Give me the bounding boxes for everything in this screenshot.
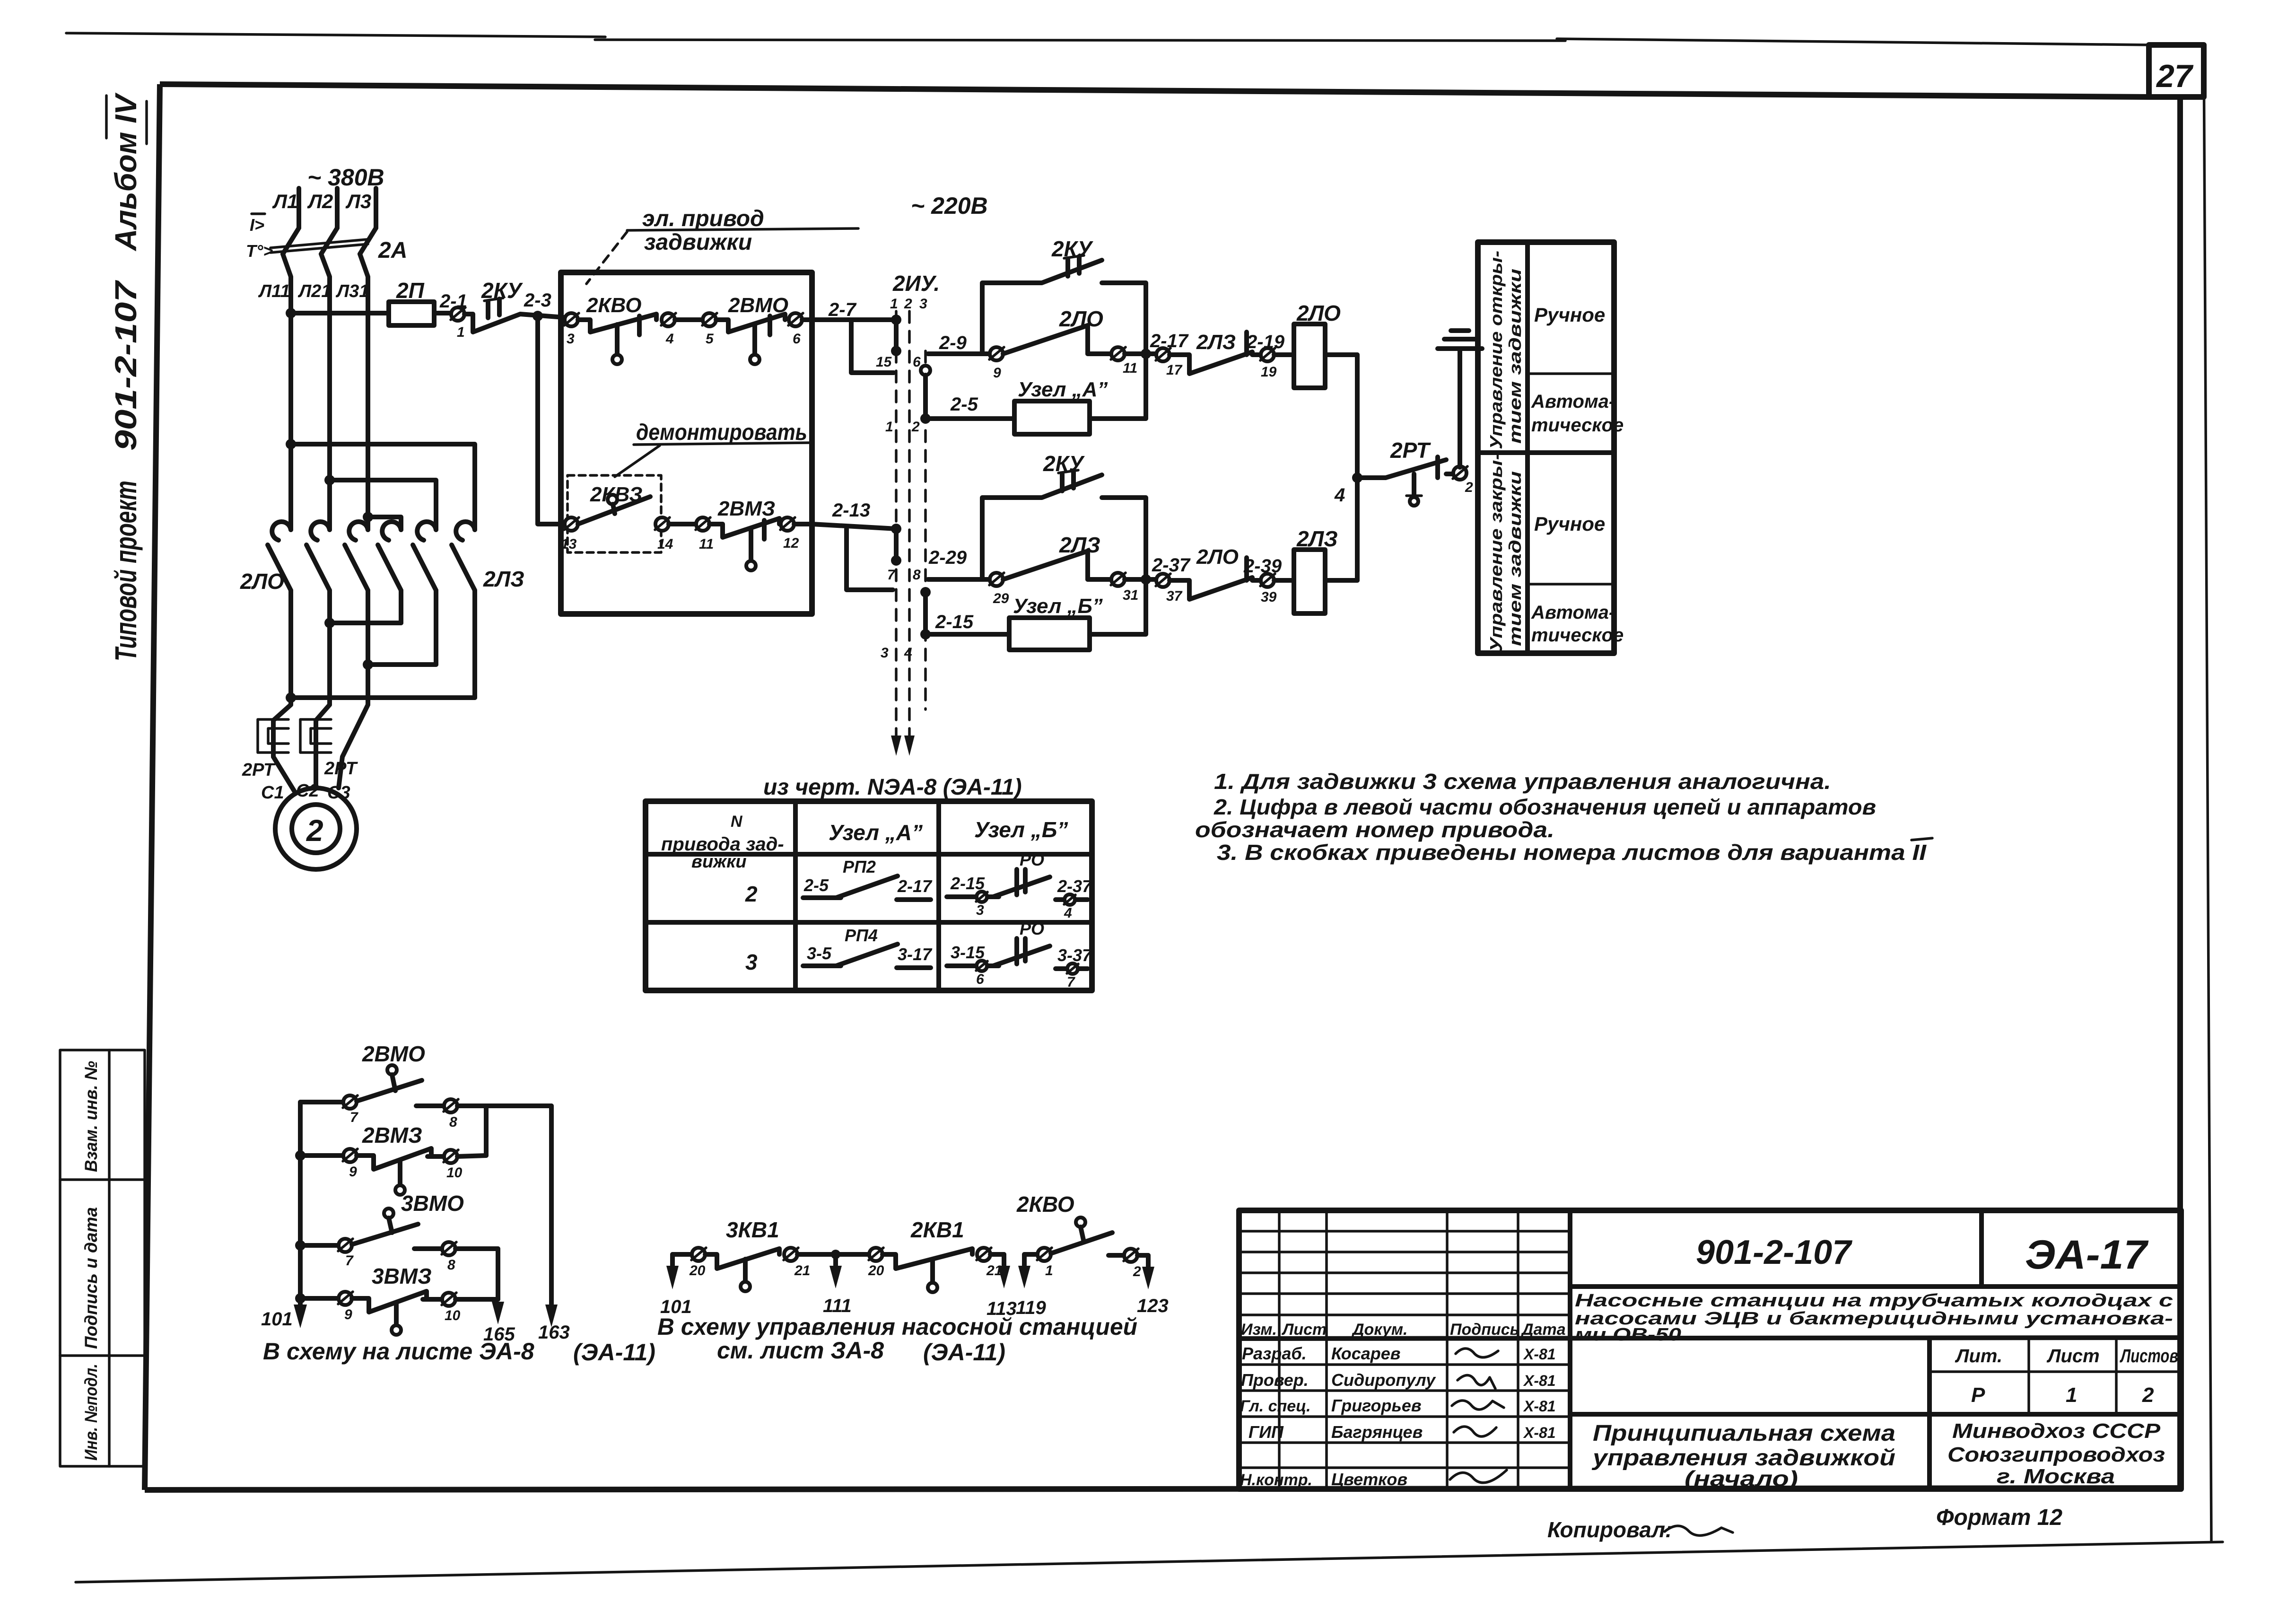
svg-text:Л21: Л21	[297, 281, 331, 301]
net ~220V label	[911, 193, 988, 219]
svg-text:Узел „Б”: Узел „Б”	[974, 817, 1068, 842]
thermal relay 2RT element2	[300, 705, 358, 779]
switch 2KU main	[464, 278, 570, 332]
sheet outer border top	[66, 33, 2151, 45]
svg-text:Л11: Л11	[258, 281, 290, 301]
svg-text:обозначает номер привода.: обозначает номер привода.	[1195, 817, 1554, 842]
svg-text:2-37: 2-37	[1152, 555, 1191, 576]
wire phase L31	[335, 254, 369, 530]
node 2-5 uzelA	[931, 394, 1014, 419]
svg-text:(ЭА-11): (ЭА-11)	[573, 1339, 655, 1366]
svg-text:163: 163	[538, 1322, 570, 1343]
svg-text:3: 3	[745, 950, 758, 974]
svg-text:3-5: 3-5	[807, 944, 832, 963]
svg-text:2-37: 2-37	[1057, 876, 1092, 896]
svg-text:9: 9	[344, 1307, 352, 1322]
svg-text:2ЛО: 2ЛО	[240, 569, 284, 594]
svg-text:Насосные станции на трубчатых: Насосные станции на трубчатых колодцах с	[1575, 1291, 2173, 1311]
svg-text:3: 3	[567, 331, 575, 347]
svg-text:В схему управления насосной: В схему управления насосной станцией	[657, 1314, 1137, 1340]
svg-text:Н.контр.: Н.контр.	[1240, 1471, 1312, 1489]
svg-text:Лист: Лист	[2046, 1346, 2100, 1366]
svg-text:4: 4	[665, 331, 674, 347]
motor M2	[275, 788, 357, 869]
svg-text:11: 11	[699, 536, 714, 552]
contact 2KV1	[868, 1217, 1004, 1292]
contact 3KV1	[689, 1217, 869, 1291]
terminal 2-39	[1243, 556, 1282, 605]
svg-text:3: 3	[976, 902, 984, 918]
terminal 2-17	[1150, 331, 1189, 378]
contact 2VMZ aux	[295, 1123, 486, 1195]
svg-text:3ВМЗ: 3ВМЗ	[372, 1264, 432, 1288]
contact 2LZ aux open	[1003, 533, 1111, 579]
svg-text:2П: 2П	[396, 278, 425, 303]
svg-text:задвижки: задвижки	[644, 230, 752, 255]
svg-text:Григорьев: Григорьев	[1331, 1396, 1422, 1415]
svg-text:Багрянцев: Багрянцев	[1331, 1422, 1423, 1442]
svg-text:7: 7	[350, 1110, 358, 1125]
svg-text:2-9: 2-9	[939, 333, 967, 353]
note format	[1936, 1505, 2062, 1530]
svg-text:3. В скобках приведены номер: 3. В скобках приведены номера листов для…	[1217, 840, 1927, 865]
note kopiroval	[1547, 1517, 1733, 1542]
svg-text:Союзгипроводхоз: Союзгипроводхоз	[1947, 1443, 2165, 1466]
sheet number box	[2149, 45, 2204, 97]
svg-text:12: 12	[783, 535, 799, 551]
switch 2KU open branch	[982, 236, 1146, 354]
svg-text:Автома-: Автома-	[1531, 391, 1615, 412]
margin stamp boxes	[60, 1050, 145, 1466]
node L3	[345, 188, 376, 228]
svg-text:13: 13	[561, 536, 577, 552]
switch 2KU close branch	[982, 451, 1146, 579]
svg-text:15: 15	[876, 354, 892, 370]
svg-text:14: 14	[657, 536, 673, 552]
ground	[1438, 331, 1482, 467]
svg-text:2: 2	[1133, 1264, 1141, 1279]
terminal 2-37	[1152, 555, 1191, 604]
fuse 2P	[389, 278, 450, 325]
svg-text:2. Цифра в левой части обознач: 2. Цифра в левой части обозначения цепей…	[1213, 795, 1876, 819]
node 2-3	[524, 290, 551, 321]
node 2-7	[812, 299, 901, 373]
svg-text:Лит.: Лит.	[1955, 1346, 2002, 1366]
svg-text:см. лист ЗА-8: см. лист ЗА-8	[717, 1337, 884, 1364]
svg-text:20: 20	[868, 1263, 884, 1278]
svg-text:ГИП: ГИП	[1248, 1422, 1284, 1442]
svg-text:2-3: 2-3	[524, 290, 551, 311]
svg-text:Автома-: Автома-	[1531, 602, 1615, 623]
svg-text:7: 7	[1067, 974, 1075, 990]
svg-text:Альбом IV: Альбом IV	[109, 92, 143, 252]
terminal 31	[1111, 573, 1156, 603]
svg-text:Гл. спец.: Гл. спец.	[1240, 1397, 1311, 1415]
svg-text:В схему на листе ЭА-8: В схему на листе ЭА-8	[263, 1338, 534, 1365]
svg-text:Сидиропулу: Сидиропулу	[1331, 1370, 1436, 1390]
svg-text:Подпись и дата: Подпись и дата	[81, 1207, 101, 1349]
caption ladder	[263, 1338, 655, 1366]
svg-text:2КВО: 2КВО	[586, 294, 641, 317]
svg-text:21: 21	[794, 1263, 810, 1278]
svg-text:2РТ: 2РТ	[242, 760, 276, 780]
svg-text:Изм.: Изм.	[1241, 1321, 1277, 1339]
svg-text:901-2-107: 901-2-107	[109, 280, 143, 451]
svg-text:вижки: вижки	[691, 852, 747, 872]
svg-text:6: 6	[976, 972, 984, 987]
contact 2KVO chain	[1016, 1192, 1148, 1279]
svg-text:Подпись: Подпись	[1450, 1321, 1519, 1339]
svg-text:Л1: Л1	[272, 190, 298, 212]
node fuse tap	[286, 308, 389, 318]
svg-text:37: 37	[1166, 588, 1183, 604]
svg-text:123: 123	[1137, 1296, 1169, 1316]
svg-text:3: 3	[919, 296, 927, 312]
contactor 2LZ poles	[378, 522, 524, 591]
svg-text:2РТ: 2РТ	[1390, 438, 1432, 463]
title block texts	[1240, 1232, 2178, 1491]
contact 2LZ nc	[1170, 331, 1261, 374]
svg-text:2-29: 2-29	[928, 547, 967, 568]
contactor jumper phase1 to pole6	[286, 439, 475, 530]
terminal 6	[788, 313, 812, 347]
svg-text:2: 2	[306, 814, 323, 848]
svg-text:4: 4	[1334, 485, 1345, 506]
svg-text:X-81: X-81	[1523, 1372, 1556, 1389]
svg-text:эл. привод: эл. привод	[642, 206, 764, 231]
svg-text:10: 10	[446, 1165, 463, 1181]
terminal 14	[655, 517, 696, 552]
svg-text:2ИУ.: 2ИУ.	[892, 271, 940, 296]
svg-text:Р: Р	[1971, 1384, 1985, 1407]
terminal 11	[696, 517, 714, 552]
svg-text:2: 2	[911, 419, 920, 435]
wire ladder right drop	[486, 1106, 570, 1343]
dashed box to dismantle	[567, 475, 661, 552]
svg-text:~ 380В: ~ 380В	[307, 164, 384, 191]
svg-text:2ВМЗ: 2ВМЗ	[717, 497, 775, 520]
chain arrow 119	[1016, 1254, 1047, 1318]
terminal 13	[561, 517, 579, 552]
svg-text:8: 8	[449, 1114, 457, 1130]
wire recross pole5 to phase3	[363, 659, 436, 670]
svg-text:(начало): (начало)	[1685, 1466, 1798, 1491]
svg-text:27: 27	[2156, 58, 2194, 94]
wire ladder right drop2	[496, 1249, 500, 1299]
svg-text:тическое: тическое	[1531, 625, 1624, 646]
svg-text:г. Москва: г. Москва	[1997, 1465, 2115, 1488]
svg-text:Ручное: Ручное	[1534, 513, 1605, 535]
wire motor leads	[273, 705, 368, 791]
svg-text:Дата: Дата	[1520, 1321, 1566, 1339]
svg-text:Копировал:: Копировал:	[1547, 1517, 1672, 1542]
svg-text:Косарев: Косарев	[1331, 1344, 1401, 1363]
contact 3VMO aux	[295, 1191, 498, 1273]
svg-text:Минводхоз СССР: Минводхоз СССР	[1952, 1419, 2161, 1443]
svg-text:Взам. инв. №: Взам. инв. №	[81, 1061, 101, 1172]
svg-text:4: 4	[904, 645, 912, 661]
svg-text:Л3: Л3	[345, 190, 371, 212]
terminal 29	[989, 573, 1009, 606]
svg-text:2А: 2А	[378, 238, 407, 263]
terminal 3	[564, 313, 579, 347]
thermal relay 2RT element1	[242, 705, 291, 780]
svg-text:Узел „А”: Узел „А”	[829, 820, 923, 845]
wire phase L21	[297, 254, 331, 530]
svg-text:17: 17	[1166, 362, 1183, 378]
svg-text:Л31: Л31	[335, 281, 369, 301]
svg-text:Листов: Листов	[2120, 1346, 2178, 1366]
svg-text:Докум.: Докум.	[1351, 1321, 1407, 1339]
mid reference table	[646, 775, 1092, 990]
svg-text:РП4: РП4	[845, 926, 878, 945]
terminal 5	[702, 313, 717, 347]
mode table	[1478, 242, 1624, 653]
svg-text:X-81: X-81	[1523, 1424, 1556, 1441]
svg-text:Лист: Лист	[1281, 1321, 1327, 1339]
svg-text:2КВО: 2КВО	[1016, 1192, 1074, 1217]
coil 2LZ	[1274, 526, 1357, 613]
mid table row valve2	[745, 850, 1092, 921]
svg-text:2ЛО: 2ЛО	[1196, 545, 1239, 569]
enclosure box drive	[561, 272, 812, 614]
node 2-29	[928, 547, 990, 579]
svg-text:1: 1	[2066, 1384, 2077, 1407]
svg-text:(ЭА-11): (ЭА-11)	[923, 1339, 1005, 1366]
node 2-15 uzelB	[931, 612, 1009, 634]
svg-text:2-5: 2-5	[950, 394, 978, 415]
chain arrow 123	[1137, 1255, 1169, 1316]
svg-text:Узел „Б”: Узел „Б”	[1013, 595, 1103, 618]
svg-text:901-2-107: 901-2-107	[1696, 1234, 1852, 1271]
contactor jumper phase3 to pole4	[363, 512, 401, 530]
svg-text:2-15: 2-15	[935, 612, 974, 632]
svg-text:2: 2	[2142, 1384, 2154, 1407]
svg-text:Управление закры-: Управление закры-	[1486, 453, 1506, 652]
drawing frame	[145, 84, 2181, 1490]
svg-text:Принципиальная схема: Принципиальная схема	[1593, 1421, 1895, 1446]
svg-text:тическое: тическое	[1531, 415, 1624, 436]
terminal strip taps line3	[920, 366, 931, 639]
svg-text:2ВМО: 2ВМО	[362, 1042, 425, 1066]
svg-text:РО: РО	[1020, 850, 1044, 869]
svg-text:Разраб.: Разраб.	[1242, 1344, 1307, 1363]
svg-text:Цветков: Цветков	[1331, 1470, 1407, 1489]
svg-text:тием задвижки: тием задвижки	[1505, 471, 1525, 646]
node 2-9	[928, 333, 990, 354]
svg-text:10: 10	[445, 1308, 461, 1323]
contact 2LO nc	[1170, 545, 1261, 599]
wire recross pole4 to phase2	[324, 618, 401, 628]
terminal 2 control	[1453, 466, 1473, 495]
chain arrow 113	[986, 1254, 1017, 1319]
contact 2VMZ	[709, 497, 779, 570]
svg-text:9: 9	[993, 365, 1001, 381]
label demontirovat	[615, 420, 810, 477]
terminal 9	[989, 347, 1004, 381]
chain arrow 111	[823, 1250, 852, 1316]
svg-text:1: 1	[457, 324, 465, 340]
chain arrow 101	[660, 1254, 692, 1317]
svg-text:8: 8	[913, 567, 921, 583]
svg-text:3: 3	[881, 645, 889, 661]
wire feeder to lower row	[538, 316, 563, 524]
svg-text:демонтировать: демонтировать	[636, 420, 807, 445]
svg-text:Ручное: Ручное	[1534, 304, 1605, 326]
svg-text:РП2: РП2	[843, 857, 876, 876]
terminal 2-19	[1246, 332, 1285, 380]
svg-text:2: 2	[904, 296, 912, 312]
svg-text:~ 220В: ~ 220В	[911, 193, 988, 219]
svg-text:тием задвижки: тием задвижки	[1505, 269, 1525, 444]
svg-text:1. Для задвижки 3 схема управл: 1. Для задвижки 3 схема управления анало…	[1214, 769, 1831, 794]
node 2-13	[812, 500, 901, 590]
terminal C1 C2 C3	[261, 781, 350, 803]
title block signatures	[1450, 1349, 1507, 1483]
net ~380V label	[307, 164, 384, 191]
contact 2LO aux open	[1003, 306, 1111, 354]
svg-text:N: N	[731, 813, 743, 831]
svg-text:2-17: 2-17	[897, 876, 933, 896]
contact 2KVO	[578, 294, 656, 364]
contactor 2LO poles	[240, 522, 368, 594]
wire pole outputs	[291, 590, 475, 705]
svg-text:3КВ1: 3КВ1	[726, 1217, 779, 1242]
svg-text:39: 39	[1261, 589, 1277, 605]
terminal 11 control	[1111, 347, 1156, 376]
svg-text:3-17: 3-17	[898, 945, 933, 964]
node junction uzelA riser	[1141, 349, 1151, 359]
contact 3VMZ aux	[295, 1264, 515, 1345]
node junction uzelB riser	[1141, 574, 1151, 585]
svg-text:2ЛЗ: 2ЛЗ	[1196, 331, 1236, 354]
svg-text:6: 6	[793, 331, 801, 347]
svg-text:Провер.: Провер.	[1241, 1370, 1309, 1390]
svg-text:1: 1	[890, 296, 898, 312]
title block frame	[1239, 1210, 2181, 1489]
svg-text:Л2: Л2	[307, 190, 333, 212]
svg-text:9: 9	[349, 1164, 357, 1180]
svg-text:20: 20	[689, 1263, 706, 1278]
margin note: project designation (rotated)	[106, 92, 147, 661]
node L2	[307, 188, 337, 228]
svg-text:31: 31	[1123, 587, 1138, 603]
coil 2LO	[1274, 301, 1357, 388]
svg-text:2ВМЗ: 2ВМЗ	[362, 1123, 422, 1147]
svg-text:11: 11	[1123, 360, 1137, 376]
terminal 12	[780, 517, 812, 551]
wire coil common bus	[1334, 355, 1386, 580]
svg-text:2-7: 2-7	[828, 299, 857, 320]
svg-text:из черт. NЭА-8 (ЭА-11): из черт. NЭА-8 (ЭА-11)	[763, 775, 1022, 800]
caption chain	[657, 1314, 1137, 1366]
svg-text:3ВМО: 3ВМО	[401, 1191, 464, 1216]
notes text	[1195, 769, 1932, 865]
svg-text:4: 4	[1064, 905, 1072, 921]
svg-text:19: 19	[1261, 364, 1277, 380]
wire phase L11	[258, 254, 291, 530]
svg-text:2: 2	[1465, 480, 1473, 495]
contact 2VMO aux	[300, 1042, 551, 1130]
svg-text:Управление откры-: Управление откры-	[1486, 251, 1506, 449]
terminal strip 2IU	[876, 271, 940, 756]
svg-text:2-5: 2-5	[803, 876, 829, 895]
sheet outer border bottom	[76, 1542, 2223, 1582]
contactor jumper phase2 to pole5	[324, 475, 436, 530]
terminal 4	[661, 313, 703, 347]
svg-text:Формат 12: Формат 12	[1936, 1505, 2062, 1530]
svg-text:Инв. №подл.: Инв. №подл.	[81, 1364, 101, 1461]
ladder left bus	[261, 1102, 307, 1330]
svg-text:РО: РО	[1020, 919, 1044, 938]
svg-text:I>: I>	[250, 215, 264, 235]
block uzel B	[1009, 580, 1146, 650]
sheet outer border right	[2204, 45, 2211, 1541]
svg-text:1: 1	[1045, 1263, 1053, 1278]
svg-text:5: 5	[706, 331, 714, 347]
svg-text:101: 101	[261, 1309, 293, 1330]
terminal 2-1	[439, 291, 467, 340]
svg-text:7: 7	[887, 567, 896, 583]
svg-text:2: 2	[745, 882, 758, 906]
svg-text:Узел „А”: Узел „А”	[1018, 378, 1108, 401]
label electric drive of valve	[586, 206, 858, 284]
svg-text:С1: С1	[261, 783, 284, 803]
svg-text:2-13: 2-13	[832, 500, 870, 521]
contact 2VMO	[716, 294, 788, 364]
wire recross pole6 to phase1	[286, 692, 475, 703]
mid table row valve3	[745, 919, 1092, 990]
svg-text:7: 7	[345, 1253, 354, 1269]
svg-text:X-81: X-81	[1523, 1398, 1556, 1415]
svg-text:2КВ1: 2КВ1	[910, 1217, 964, 1242]
node L1	[272, 188, 299, 228]
contact 2KVZ	[578, 483, 650, 524]
svg-text:ми ОВ-50: ми ОВ-50	[1575, 1325, 1681, 1345]
breaker 2A	[246, 214, 407, 263]
svg-text:29: 29	[993, 591, 1009, 606]
svg-text:8: 8	[447, 1257, 455, 1273]
svg-text:Типовой проект: Типовой проект	[109, 481, 143, 661]
block uzel A	[1014, 354, 1146, 434]
svg-text:T°>: T°>	[246, 241, 273, 261]
contact 2RT nc thermal	[1386, 438, 1453, 506]
svg-text:2ЛЗ: 2ЛЗ	[483, 567, 524, 591]
svg-text:1: 1	[885, 419, 893, 435]
svg-text:X-81: X-81	[1523, 1346, 1556, 1363]
svg-text:ЭА-17: ЭА-17	[2025, 1232, 2149, 1278]
svg-text:3-37: 3-37	[1057, 946, 1092, 965]
